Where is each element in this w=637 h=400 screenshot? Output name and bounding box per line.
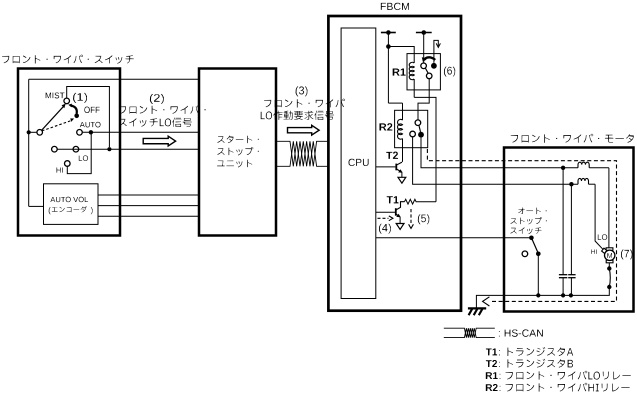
junction power rail [386, 44, 391, 49]
auto-stop switch contact open [522, 251, 528, 257]
legend R1 [486, 372, 498, 379]
wire T1 emitter to ground [399, 217, 401, 224]
start-stop unit box [199, 69, 276, 236]
contact AUTO [77, 130, 83, 136]
HS-CAN twisted pair bus [276, 141, 328, 166]
relay R1 coil [409, 62, 414, 79]
label OFF [84, 107, 99, 113]
label (7) [621, 250, 632, 260]
junction LO capacitor [561, 166, 565, 170]
wire coil LO to motor [589, 167, 609, 169]
label start-stop unit text 2 [217, 147, 258, 155]
arrow (5) dashed shaft [410, 209, 412, 224]
arrow R1 output hook (6) [434, 40, 438, 63]
transistor T1 emitter [396, 214, 400, 217]
lever pivot contact [37, 130, 43, 136]
label auto stop switch 3 [510, 227, 541, 234]
switch lever to MIST [42, 106, 64, 130]
label HI [57, 168, 63, 173]
wire power rail left [387, 33, 389, 104]
CPU box [341, 28, 376, 299]
wire R1 coil bottom [413, 79, 415, 97]
contact LO left [52, 146, 58, 152]
wire AUTO VOL 2 [98, 205, 199, 207]
wire to lever pivot [29, 131, 37, 133]
HS-CAN legend symbol [444, 328, 495, 337]
relay R2 contact NO [410, 131, 416, 137]
label (2) [150, 94, 164, 104]
arrow signal (3) [288, 125, 320, 135]
ground T2 [398, 177, 406, 183]
relay R1 contact arm [425, 68, 428, 73]
capacitor C2 lead top [570, 184, 572, 275]
transistor T2 emitter [396, 169, 402, 173]
relay R2 box [395, 110, 428, 147]
power feed bar 2 [416, 32, 432, 34]
arrowhead T2 emitter [398, 169, 402, 173]
label front wiper switch LO signal 1 [119, 105, 206, 114]
wire motor to park switch [608, 263, 610, 269]
noise suppressor coil HI [578, 178, 589, 184]
label M [607, 253, 612, 258]
FBCM box [328, 16, 461, 311]
motor M1 [606, 248, 613, 251]
label R2 [379, 123, 392, 130]
junction HI capacitor [569, 182, 573, 186]
junction C1 ground rail [561, 293, 565, 297]
wire CPU to T1 base [376, 211, 395, 213]
transistor T2 collector [396, 162, 402, 165]
capacitor C2 plate top [568, 274, 575, 276]
auto-stop switch arm [531, 238, 538, 253]
wire AUTO VOL 1 [98, 194, 199, 196]
label T1 [387, 196, 399, 203]
dashed ground return path [427, 149, 616, 301]
arrowhead (4) [389, 216, 393, 221]
resistor T1 collector [405, 199, 437, 204]
wire power to R2 coil [388, 102, 402, 104]
wire R2 COM to motor LO [421, 138, 578, 168]
label MIST [46, 93, 65, 99]
label front wiper switch LO signal 2 [119, 118, 192, 127]
wire R2 coil top [402, 103, 404, 120]
wire auto-stop to ground rail [537, 254, 539, 296]
AUTO VOL encoder box [44, 184, 99, 225]
wire coil HI right [589, 183, 596, 185]
wire power to R1 coil [388, 47, 414, 64]
capacitor C1 lead bottom [562, 278, 564, 296]
auto-stop switch contact [536, 252, 541, 257]
legend T2 [486, 360, 497, 367]
capacitor C2 lead bottom [570, 278, 572, 296]
label LO [79, 155, 88, 160]
label FBCM [381, 3, 409, 10]
wire HI loop [67, 132, 91, 173]
wire CPU to auto-stop switch [376, 237, 532, 239]
wire motor HI terminal [595, 184, 603, 250]
arrowhead relay R1 action [422, 57, 427, 62]
park switch contact bottom [607, 285, 611, 289]
relay R1 contact NC [426, 73, 432, 79]
wire power to R1 contact [423, 33, 425, 64]
label CPU [349, 159, 369, 166]
junction AUTO output [89, 130, 93, 134]
label encoder [49, 207, 51, 214]
wire R1 NC to R2 pivot [418, 79, 429, 120]
capacitor C1 lead top [562, 168, 564, 275]
label motor HI [591, 249, 596, 253]
wire T2 emitter to ground [401, 172, 403, 177]
wire LO row output [57, 148, 199, 150]
label AUTO [80, 122, 101, 127]
junction pivot feed [27, 130, 31, 134]
relay R1 contact NO [431, 63, 437, 69]
contact OFF [74, 114, 79, 119]
auto-stop switch pivot [529, 236, 534, 241]
power feed dot 2 [422, 30, 427, 35]
junction C2 ground rail [569, 293, 573, 297]
label front wiper LO request 2 [261, 111, 334, 120]
arrow signal (2) [143, 136, 175, 146]
ground T1 [396, 224, 404, 230]
noise suppressor coil LO [578, 162, 589, 168]
arrowhead R1 hook [436, 43, 440, 47]
junction auto-stop ground rail [536, 293, 540, 297]
wire left rail [28, 79, 30, 206]
label auto stop switch 1 [518, 208, 546, 215]
label start-stop unit text 3 [217, 160, 252, 168]
transistor T1 base bar [395, 208, 397, 216]
label T2 [386, 152, 398, 159]
wire into AUTO VOL [29, 205, 44, 207]
relay R2 coil [398, 119, 403, 139]
wire motor LO terminal [608, 168, 610, 248]
wire MIST loop [67, 87, 110, 148]
relay R2 contact COM [418, 132, 424, 138]
junction LO rail [107, 147, 111, 151]
legend T1 [486, 349, 497, 356]
label front wiper switch title [2, 55, 134, 64]
wire R1 coil to T1 collector [414, 97, 436, 201]
contact MIST [64, 98, 70, 104]
label (5) [418, 214, 429, 224]
contact LO right [73, 146, 79, 152]
wire ground rail [476, 287, 609, 308]
park switch contact top [607, 266, 611, 270]
relay R2 contact arm [419, 125, 421, 132]
label (6) [444, 67, 455, 77]
power feed dot 1 [386, 30, 391, 35]
relay R1 box [407, 54, 440, 90]
label motor LO [598, 234, 607, 240]
legend R2 [486, 384, 498, 391]
capacitor C1 plate bottom [559, 277, 567, 279]
front wiper switch box [18, 69, 120, 236]
transistor T1 collector [396, 202, 405, 210]
transistor T2 base bar [395, 164, 397, 171]
wire AUTO VOL 3 [98, 215, 199, 217]
chassis ground [468, 307, 486, 309]
wire AUTO switch LO signal output [82, 131, 199, 133]
arrow (4) dashed shaft [378, 217, 389, 219]
arrowhead switch action [68, 104, 72, 108]
relay R1 contact pivot [421, 63, 427, 69]
wire R2 coil to T2 collector [402, 139, 404, 162]
label HS-CAN [499, 329, 543, 336]
arrowhead lever OFF [70, 118, 74, 122]
front wiper motor box [504, 148, 634, 312]
label start-stop unit text 1 [217, 136, 258, 144]
label R1 [393, 69, 406, 76]
wire CPU to T2 base [376, 166, 396, 168]
relay R2 contact pivot [415, 120, 421, 126]
park switch arm [609, 269, 610, 288]
label front wiper motor title [511, 134, 634, 143]
capacitor C1 plate top [559, 274, 567, 276]
wire R2 NO to motor HI [413, 137, 578, 184]
label auto stop switch 2 [510, 217, 546, 224]
label AUTO VOL [50, 197, 88, 202]
power feed bar 1 [381, 32, 396, 34]
switch lever alternate dashed [42, 121, 70, 131]
arrowhead (5) [409, 224, 414, 228]
label (1) [73, 93, 87, 103]
capacitor C2 plate bottom [568, 277, 575, 279]
arrow relay R1 action [424, 57, 435, 60]
label (3) [296, 86, 308, 96]
arrow switch action (1) [71, 106, 77, 114]
arrowhead ground return [483, 297, 490, 306]
wire top rail to start-stop unit [29, 78, 199, 80]
label (4) [379, 224, 391, 234]
contact HI [65, 161, 71, 167]
label front wiper LO request 1 [264, 99, 345, 108]
arrowhead T1 emitter [396, 214, 400, 218]
arrowhead lever MIST [62, 104, 66, 109]
